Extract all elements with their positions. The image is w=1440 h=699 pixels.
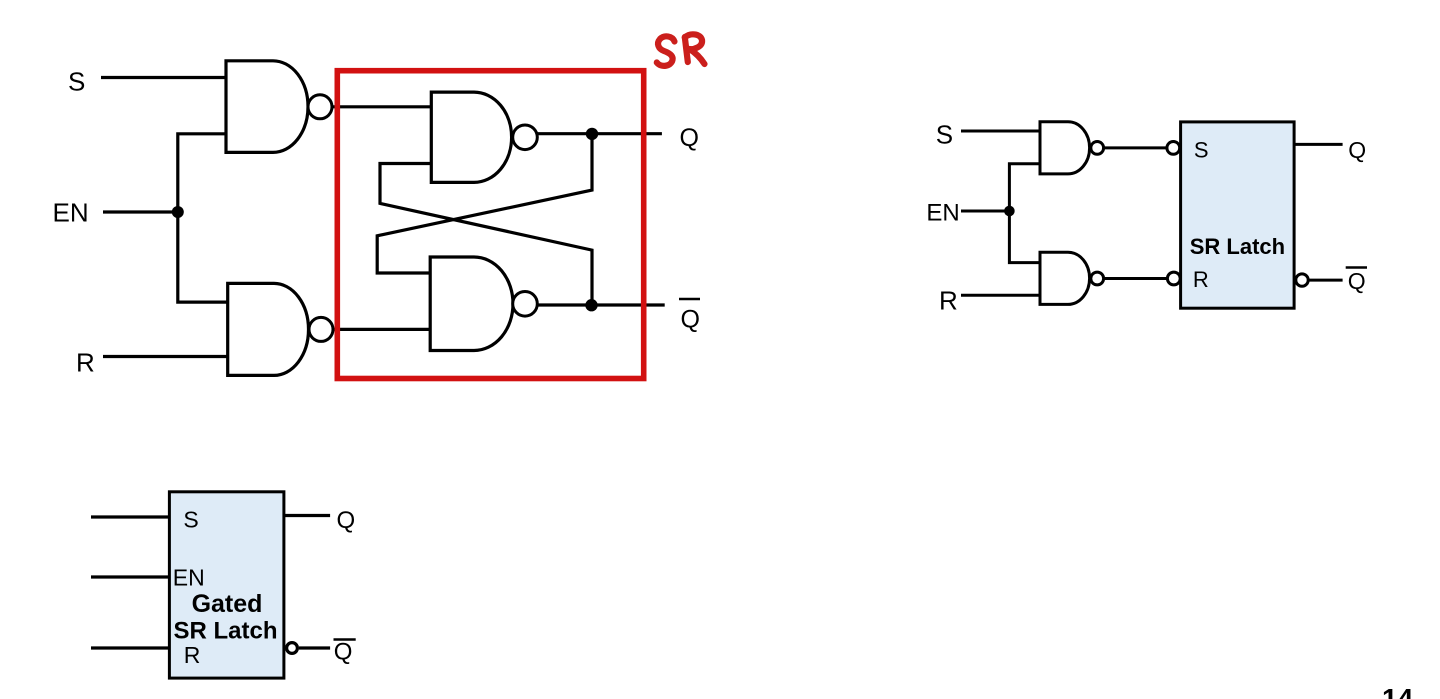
junction EN [172,206,184,218]
wire R input [103,355,228,358]
svg-text:14: 14 [1382,683,1414,699]
nand gate U5 [1040,122,1090,174]
svg-text:R: R [184,642,201,668]
svg-text:Gated: Gated [192,590,263,618]
junction Q [586,128,598,140]
wire S input right [961,130,1041,133]
svg-text:S: S [1194,138,1209,163]
svg-text:Q: Q [1348,137,1366,163]
wire S input [101,76,227,79]
nand gate U3 (latch top) [431,92,511,182]
nand gate U1 (S enable) [226,61,308,153]
wire EN input right [961,210,1009,213]
wire Qbar output [538,303,665,306]
wire gate2 output to latch [332,328,431,331]
bubble U2 [309,317,333,341]
label SR (handwritten, red) [657,34,705,66]
svg-text:S: S [936,120,953,150]
svg-text:EN: EN [53,198,89,228]
svg-text:R: R [1193,267,1209,292]
wire EN vertical branch [178,134,228,302]
svg-text:Q: Q [680,124,699,152]
wire S input bottom [91,515,169,518]
svg-text:R: R [76,348,95,378]
svg-text:Q: Q [337,507,356,534]
wire Qbar output bottom [299,646,330,649]
svg-text:EN: EN [926,200,959,227]
bubble U4 [513,292,538,317]
wire gate U5 output to latch S [1100,146,1170,149]
Gated SR Latch block [169,492,284,678]
nand gate U6 [1040,252,1090,304]
wire Qbar output right [1309,279,1343,282]
junction EN right [1004,206,1015,217]
bubble U1 [308,95,332,119]
SR Latch block [1181,122,1295,308]
svg-text:S: S [68,67,85,97]
svg-text:EN: EN [173,565,205,591]
bubble latch R input [1167,272,1180,285]
wire EN input bottom [91,575,169,578]
wire EN input [103,210,178,213]
wire U3 second input (cross-couple from Qbar) [380,164,592,306]
wire R input right [961,294,1041,297]
wire gate U6 output to latch R [1100,277,1170,280]
svg-text:Q: Q [334,639,353,666]
nand gate U4 (latch bottom) [430,257,513,351]
wire Q output bottom [284,514,330,517]
bubble Qbar bottom [287,643,298,654]
wire Q output right [1294,143,1343,146]
svg-text:R: R [939,286,958,316]
bubble latch Qbar output [1296,274,1308,286]
svg-text:SR Latch: SR Latch [173,618,277,645]
wire gate1 output to latch [331,105,432,108]
bubble U3 [513,125,538,150]
junction Qbar [585,299,597,311]
bubble U5 [1091,142,1104,155]
svg-text:S: S [183,507,198,533]
svg-text:SR Latch: SR Latch [1190,234,1285,259]
SR latch boundary box (red) [337,71,643,379]
wire Q output [537,132,662,135]
svg-text:Q: Q [681,306,700,334]
wire U4 second input (cross-couple from Q) [377,134,592,273]
svg-text:Q: Q [1348,268,1366,294]
nand gate U2 (R enable) [228,283,309,375]
bubble U6 [1091,272,1104,285]
bubble latch S input [1167,142,1180,155]
wire R input bottom [91,646,169,649]
wire EN vertical branch right [1009,164,1040,263]
